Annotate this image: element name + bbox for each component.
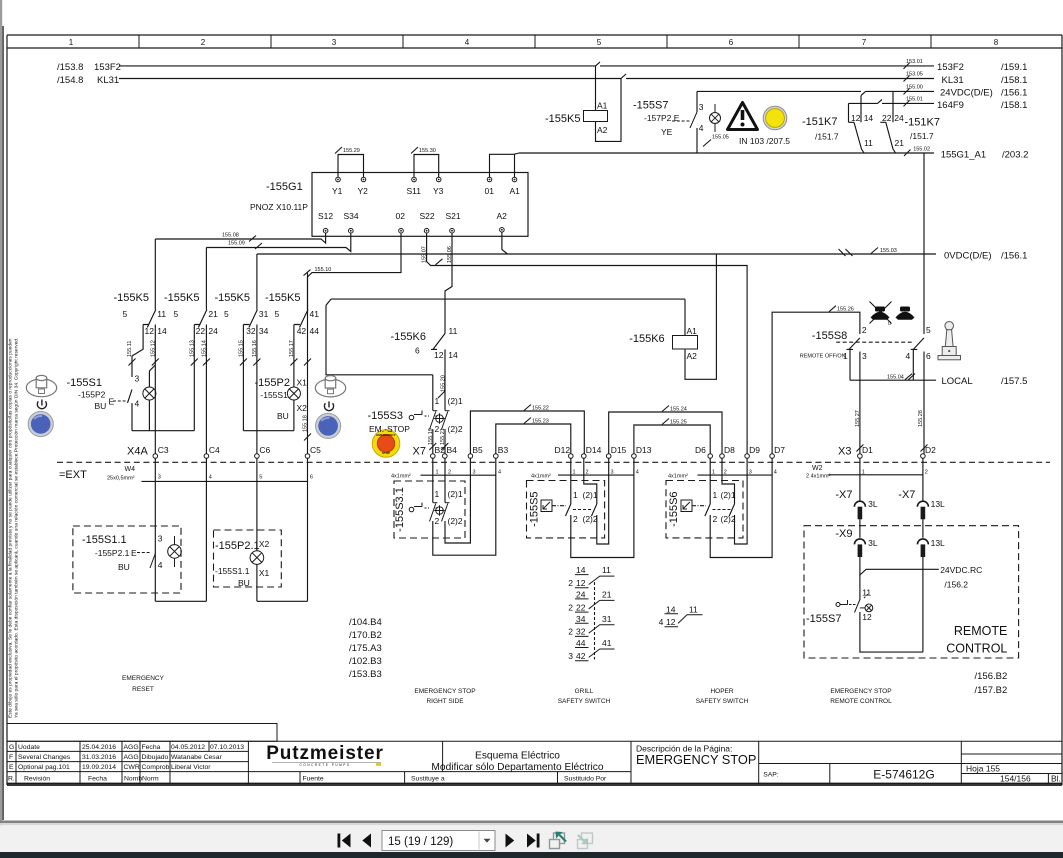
svg-text:-155S1: -155S1 xyxy=(67,377,102,389)
svg-text:D15: D15 xyxy=(611,445,627,455)
svg-text:1: 1 xyxy=(573,470,576,476)
svg-text:14: 14 xyxy=(448,350,458,360)
svg-text:155.19: 155.19 xyxy=(428,428,434,445)
svg-text:1: 1 xyxy=(436,470,439,476)
svg-text:41: 41 xyxy=(310,309,320,319)
svg-text:Liberal Victor: Liberal Victor xyxy=(171,764,211,771)
svg-text:4: 4 xyxy=(465,38,470,47)
svg-text:-151K7: -151K7 xyxy=(802,116,837,128)
svg-text:Sustituido Por: Sustituido Por xyxy=(564,775,607,782)
svg-text:B2: B2 xyxy=(435,445,446,455)
svg-text:S21: S21 xyxy=(446,211,461,221)
svg-text:164F9: 164F9 xyxy=(937,100,964,111)
svg-text:-155P2.1: -155P2.1 xyxy=(95,548,130,558)
svg-text:3: 3 xyxy=(699,102,704,112)
svg-text:153.01: 153.01 xyxy=(906,59,923,65)
svg-text:8: 8 xyxy=(994,38,999,47)
svg-text:155.02: 155.02 xyxy=(913,147,930,153)
svg-text:155.14: 155.14 xyxy=(201,340,207,357)
svg-text:/170.B2: /170.B2 xyxy=(349,630,382,641)
svg-text:-155K5: -155K5 xyxy=(215,292,250,304)
svg-text:155.30: 155.30 xyxy=(419,148,436,154)
svg-text:21: 21 xyxy=(602,590,612,600)
svg-text:-155P2.1: -155P2.1 xyxy=(215,540,260,552)
svg-text:1: 1 xyxy=(862,470,865,476)
svg-text:Nomb: Nomb xyxy=(124,775,142,782)
svg-text:E: E xyxy=(109,397,115,407)
svg-text:Putzmeister: Putzmeister xyxy=(266,743,384,764)
svg-text:155.17: 155.17 xyxy=(289,340,295,357)
svg-text:-155K5: -155K5 xyxy=(164,292,199,304)
svg-text:6: 6 xyxy=(926,351,931,361)
svg-text:Bl.: Bl. xyxy=(1051,774,1061,784)
svg-text:6: 6 xyxy=(310,475,313,481)
svg-text:-155P2: -155P2 xyxy=(255,377,290,389)
svg-text:E: E xyxy=(9,764,14,771)
svg-text:(2)1: (2)1 xyxy=(721,490,736,500)
svg-text:0VDC(D/E): 0VDC(D/E) xyxy=(944,251,992,262)
svg-text:155.15: 155.15 xyxy=(238,340,244,357)
svg-text:Norm: Norm xyxy=(142,775,159,782)
svg-text:3: 3 xyxy=(332,38,337,47)
svg-text:D14: D14 xyxy=(586,445,602,455)
svg-text:155.12: 155.12 xyxy=(150,340,156,357)
svg-text:2: 2 xyxy=(435,516,440,526)
svg-text:44: 44 xyxy=(576,638,586,648)
svg-text:1: 1 xyxy=(69,38,74,47)
svg-text:-X7: -X7 xyxy=(835,489,852,501)
svg-text:EMERGENCY STOP: EMERGENCY STOP xyxy=(414,688,475,695)
svg-text:14: 14 xyxy=(864,113,874,123)
svg-text:2: 2 xyxy=(713,514,718,524)
svg-text:21: 21 xyxy=(895,138,905,148)
svg-text:5: 5 xyxy=(174,309,179,319)
svg-text:Y2: Y2 xyxy=(358,186,369,196)
svg-text:YE: YE xyxy=(661,127,673,137)
svg-text:-155G1: -155G1 xyxy=(266,181,303,193)
svg-text:155.13: 155.13 xyxy=(189,340,195,357)
svg-text:3: 3 xyxy=(473,470,476,476)
svg-text:Several Changes: Several Changes xyxy=(18,754,71,761)
svg-text:(2)1: (2)1 xyxy=(583,490,598,500)
svg-text:A1: A1 xyxy=(687,326,698,336)
svg-text:A2: A2 xyxy=(597,125,608,135)
svg-text:X4A: X4A xyxy=(127,446,148,458)
svg-text:0: 0 xyxy=(888,321,891,327)
svg-text:D12: D12 xyxy=(555,445,571,455)
svg-text:EM.-STOP: EM.-STOP xyxy=(369,424,410,434)
svg-text:155.29: 155.29 xyxy=(343,148,360,154)
svg-text:D6: D6 xyxy=(695,445,706,455)
svg-text:/175.A3: /175.A3 xyxy=(349,643,382,654)
svg-text:=EXT: =EXT xyxy=(59,469,87,481)
svg-text:12: 12 xyxy=(851,113,861,123)
svg-text:/151.7: /151.7 xyxy=(815,132,839,142)
svg-text:24: 24 xyxy=(208,326,218,336)
svg-text:/157.5: /157.5 xyxy=(1001,376,1027,387)
svg-text:(2)1: (2)1 xyxy=(448,489,463,499)
svg-text:07.10.2013: 07.10.2013 xyxy=(210,744,244,751)
svg-text:12: 12 xyxy=(862,612,872,622)
svg-text:EMERGENCY STOP: EMERGENCY STOP xyxy=(636,752,756,767)
svg-text:/158.1: /158.1 xyxy=(1001,75,1027,86)
svg-text:31.03.2016: 31.03.2016 xyxy=(82,754,116,761)
svg-text:-155S7: -155S7 xyxy=(806,613,841,625)
svg-text:CWR: CWR xyxy=(124,764,140,771)
svg-text:3: 3 xyxy=(611,470,614,476)
svg-text:-157P2 E: -157P2 E xyxy=(644,113,680,123)
svg-text:REMOTE OFF/ON: REMOTE OFF/ON xyxy=(800,354,846,360)
svg-text:-155S5: -155S5 xyxy=(529,491,541,526)
svg-text:2: 2 xyxy=(201,38,206,47)
svg-text:/151.7: /151.7 xyxy=(910,131,934,141)
svg-text:KL31: KL31 xyxy=(97,75,119,86)
svg-text:-155K5: -155K5 xyxy=(545,113,580,125)
svg-text:X2: X2 xyxy=(259,539,270,549)
svg-text:-X7: -X7 xyxy=(898,489,915,501)
svg-text:-X9: -X9 xyxy=(835,528,852,540)
svg-text:Ya sea sólo para el propósito: Ya sea sólo para el propósito acordado. … xyxy=(14,339,20,718)
svg-text:1: 1 xyxy=(435,489,440,499)
svg-text:S11: S11 xyxy=(407,186,422,196)
svg-text:22: 22 xyxy=(882,113,892,123)
svg-text:-155K5: -155K5 xyxy=(265,292,300,304)
svg-text:5: 5 xyxy=(224,309,229,319)
svg-text:-155P2: -155P2 xyxy=(78,390,106,400)
svg-text:11: 11 xyxy=(864,138,873,148)
svg-text:12: 12 xyxy=(434,350,444,360)
svg-text:/158.1: /158.1 xyxy=(1001,100,1027,111)
svg-text:Modificar sólo Departamento El: Modificar sólo Departamento Eléctrico xyxy=(431,762,603,773)
svg-text:Fuente: Fuente xyxy=(303,775,324,782)
svg-text:D1: D1 xyxy=(862,445,873,455)
svg-text:Revisión: Revisión xyxy=(24,775,50,782)
svg-text:X1: X1 xyxy=(297,378,308,388)
svg-text:12: 12 xyxy=(145,326,155,336)
svg-text:HOPER: HOPER xyxy=(710,688,733,695)
svg-text:4: 4 xyxy=(659,617,664,627)
svg-text:12: 12 xyxy=(576,578,586,588)
svg-text:11: 11 xyxy=(689,604,698,614)
svg-text:153F2: 153F2 xyxy=(94,62,121,73)
svg-text:14: 14 xyxy=(157,326,167,336)
svg-text:/203.2: /203.2 xyxy=(1002,150,1028,161)
svg-text:32: 32 xyxy=(576,627,586,637)
svg-text:31: 31 xyxy=(259,309,269,319)
svg-text:155.27: 155.27 xyxy=(855,410,861,427)
svg-text:SAFETY SWITCH: SAFETY SWITCH xyxy=(558,698,611,705)
svg-text:155.04: 155.04 xyxy=(887,375,904,381)
svg-text:(2)2: (2)2 xyxy=(448,424,463,434)
svg-text:24: 24 xyxy=(576,590,586,600)
svg-text:6: 6 xyxy=(729,38,734,47)
svg-text:5: 5 xyxy=(926,325,931,335)
svg-text:01: 01 xyxy=(485,186,495,196)
svg-text:4: 4 xyxy=(209,475,212,481)
svg-text:4: 4 xyxy=(774,470,777,476)
svg-text:02: 02 xyxy=(396,211,406,221)
svg-text:1: 1 xyxy=(573,490,578,500)
svg-text:D8: D8 xyxy=(724,445,735,455)
svg-text:/153.8: /153.8 xyxy=(57,62,83,73)
svg-text:D9: D9 xyxy=(749,445,760,455)
svg-text:155.10: 155.10 xyxy=(315,267,332,273)
svg-text:(2)2: (2)2 xyxy=(583,514,598,524)
svg-text:155.08: 155.08 xyxy=(222,233,239,239)
svg-text:155.24: 155.24 xyxy=(670,407,687,413)
svg-text:E: E xyxy=(131,548,137,558)
svg-text:BU: BU xyxy=(95,401,107,411)
svg-text:-155S8: -155S8 xyxy=(812,330,847,342)
svg-text:2: 2 xyxy=(568,578,573,588)
svg-text:44: 44 xyxy=(310,326,320,336)
svg-text:4: 4 xyxy=(498,470,501,476)
svg-text:Y1: Y1 xyxy=(332,186,343,196)
svg-text:11: 11 xyxy=(157,309,166,319)
svg-text:B3: B3 xyxy=(498,445,509,455)
svg-text:REMOTE: REMOTE xyxy=(954,624,1007,638)
svg-text:2: 2 xyxy=(862,325,867,335)
svg-text:Hoja 155: Hoja 155 xyxy=(966,764,1000,774)
svg-text:4x1mm²: 4x1mm² xyxy=(531,474,551,480)
svg-text:155.07: 155.07 xyxy=(422,246,428,263)
svg-text:155.03: 155.03 xyxy=(880,248,897,254)
svg-text:-155S1.1: -155S1.1 xyxy=(215,566,250,576)
svg-text:S12: S12 xyxy=(318,211,333,221)
svg-text:155.11: 155.11 xyxy=(127,341,133,357)
svg-text:BU: BU xyxy=(118,562,130,572)
svg-text:C4: C4 xyxy=(209,445,220,455)
svg-text:-155S1.1: -155S1.1 xyxy=(82,534,127,546)
svg-text:155.05: 155.05 xyxy=(712,135,729,141)
svg-text:3: 3 xyxy=(158,475,161,481)
svg-text:3: 3 xyxy=(568,651,573,661)
svg-text:X3: X3 xyxy=(838,446,851,458)
svg-text:Sustituye a: Sustituye a xyxy=(411,775,445,782)
svg-text:13L: 13L xyxy=(931,538,945,548)
svg-text:S34: S34 xyxy=(344,211,359,221)
svg-text:-155S3: -155S3 xyxy=(368,410,403,422)
svg-text:24: 24 xyxy=(894,113,904,123)
svg-text:2: 2 xyxy=(448,470,451,476)
svg-text:RESET: RESET xyxy=(132,686,154,693)
svg-text:-155K6: -155K6 xyxy=(391,331,426,343)
svg-text:B5: B5 xyxy=(472,445,483,455)
svg-text:154/156: 154/156 xyxy=(1000,774,1031,784)
svg-text:34: 34 xyxy=(576,614,586,624)
svg-text:(2)2: (2)2 xyxy=(721,514,736,524)
svg-text:4: 4 xyxy=(636,470,639,476)
svg-text:155.23: 155.23 xyxy=(532,419,549,425)
svg-text:SAP:: SAP: xyxy=(763,772,779,779)
svg-text:E-574612G: E-574612G xyxy=(873,768,934,782)
svg-text:5: 5 xyxy=(123,309,128,319)
svg-text:A2: A2 xyxy=(687,351,698,361)
svg-text:3: 3 xyxy=(749,470,752,476)
svg-text:A1: A1 xyxy=(597,101,608,111)
svg-text:D13: D13 xyxy=(636,445,652,455)
svg-text:25.04.2016: 25.04.2016 xyxy=(82,744,116,751)
svg-text:42: 42 xyxy=(576,651,586,661)
svg-text:/157.B2: /157.B2 xyxy=(975,685,1008,696)
svg-text:34: 34 xyxy=(259,326,269,336)
svg-text:-155S3.1: -155S3.1 xyxy=(394,487,406,532)
svg-text:/104.B4: /104.B4 xyxy=(349,617,382,628)
svg-text:155.21: 155.21 xyxy=(440,428,446,445)
svg-text:4x1mm²: 4x1mm² xyxy=(391,474,411,480)
svg-text:Watanabe Cesar: Watanabe Cesar xyxy=(171,754,222,761)
svg-text:Dibujado: Dibujado xyxy=(142,754,169,761)
svg-text:153F2: 153F2 xyxy=(937,62,964,73)
svg-text:3L: 3L xyxy=(868,538,878,548)
svg-text:15 (19 / 129): 15 (19 / 129) xyxy=(388,836,453,848)
svg-text:/156.1: /156.1 xyxy=(1001,251,1027,262)
svg-text:155.06: 155.06 xyxy=(447,246,453,263)
svg-text:W4: W4 xyxy=(125,466,136,473)
svg-text:Optional pag.101: Optional pag.101 xyxy=(18,764,70,771)
svg-text:AGG: AGG xyxy=(124,744,139,751)
svg-text:21: 21 xyxy=(208,309,218,319)
svg-text:A2: A2 xyxy=(497,211,508,221)
svg-text:GRILL: GRILL xyxy=(575,688,594,695)
svg-text:12: 12 xyxy=(666,617,676,627)
svg-text:4x1mm²: 4x1mm² xyxy=(668,474,688,480)
svg-text:KL31: KL31 xyxy=(942,75,964,86)
svg-text:IN 103 /207.5: IN 103 /207.5 xyxy=(739,136,790,146)
svg-text:155G1_A1: 155G1_A1 xyxy=(941,150,986,161)
svg-text:BU: BU xyxy=(238,578,250,588)
svg-text:25x0,5mm²: 25x0,5mm² xyxy=(107,476,135,482)
svg-text:-151K7: -151K7 xyxy=(905,117,940,129)
svg-text:X7: X7 xyxy=(413,446,426,458)
svg-text:Comprob: Comprob xyxy=(142,764,170,771)
svg-text:(2)1: (2)1 xyxy=(448,396,463,406)
svg-text:22: 22 xyxy=(576,602,586,612)
svg-text:14: 14 xyxy=(576,565,586,575)
svg-text:Fecha: Fecha xyxy=(88,775,107,782)
svg-text:/156.2: /156.2 xyxy=(944,580,968,590)
svg-text:C6: C6 xyxy=(259,445,270,455)
svg-text:CONCRETE PUMPS: CONCRETE PUMPS xyxy=(299,763,350,767)
svg-text:Uodate: Uodate xyxy=(18,744,40,751)
svg-text:2 4x1mm²: 2 4x1mm² xyxy=(806,474,831,480)
svg-text:-155K6: -155K6 xyxy=(629,333,664,345)
svg-text:42: 42 xyxy=(297,326,307,336)
svg-text:24VDC(D/E): 24VDC(D/E) xyxy=(940,88,993,99)
svg-text:2: 2 xyxy=(568,627,573,637)
svg-text:3L: 3L xyxy=(868,499,878,509)
svg-text:4: 4 xyxy=(135,399,140,409)
svg-text:1: 1 xyxy=(713,490,718,500)
svg-text:RIGHT SIDE: RIGHT SIDE xyxy=(426,698,464,705)
svg-text:6: 6 xyxy=(415,346,420,356)
svg-text:-155S1: -155S1 xyxy=(260,390,288,400)
svg-text:2: 2 xyxy=(925,470,928,476)
svg-text:S22: S22 xyxy=(420,211,435,221)
svg-text:155.09: 155.09 xyxy=(228,241,245,247)
svg-text:CONTROL: CONTROL xyxy=(946,642,1007,656)
svg-text:X2: X2 xyxy=(297,403,308,413)
svg-text:11: 11 xyxy=(862,588,871,598)
svg-text:-155S6: -155S6 xyxy=(668,491,680,526)
svg-text:AGG: AGG xyxy=(124,754,139,761)
svg-text:REMOTE CONTROL: REMOTE CONTROL xyxy=(830,698,892,705)
svg-text:5: 5 xyxy=(597,38,602,47)
svg-text:Esquema Eléctrico: Esquema Eléctrico xyxy=(475,751,560,762)
svg-text:32: 32 xyxy=(246,326,256,336)
svg-text:3: 3 xyxy=(862,351,867,361)
svg-text:13L: 13L xyxy=(931,499,945,509)
svg-text:/159.1: /159.1 xyxy=(1001,62,1027,73)
svg-text:D2: D2 xyxy=(925,445,936,455)
svg-text:11: 11 xyxy=(602,565,611,575)
svg-text:4: 4 xyxy=(906,351,911,361)
svg-text:155.22: 155.22 xyxy=(532,406,549,412)
svg-text:2: 2 xyxy=(435,424,440,434)
svg-text:4: 4 xyxy=(699,123,704,133)
svg-text:STOP: STOP xyxy=(382,451,390,455)
svg-text:X1: X1 xyxy=(259,568,270,578)
svg-text:B4: B4 xyxy=(447,445,458,455)
svg-text:5: 5 xyxy=(259,475,262,481)
svg-text:D7: D7 xyxy=(774,445,785,455)
svg-text:BU: BU xyxy=(277,411,289,421)
svg-text:F: F xyxy=(9,754,13,761)
svg-text:Fecha: Fecha xyxy=(142,744,161,751)
svg-text:155.25: 155.25 xyxy=(670,420,687,426)
svg-text:04.05.2012: 04.05.2012 xyxy=(171,744,205,751)
svg-text:41: 41 xyxy=(602,638,612,648)
svg-text:155.26: 155.26 xyxy=(837,307,854,313)
svg-text:1: 1 xyxy=(712,470,715,476)
svg-text:G: G xyxy=(9,744,14,751)
svg-text:Este dibujo es propiedad exclu: Este dibujo es propiedad exclusiva. Se l… xyxy=(8,338,14,718)
svg-text:2: 2 xyxy=(586,470,589,476)
svg-text:EMERGENCY STOP: EMERGENCY STOP xyxy=(830,688,891,695)
svg-text:C5: C5 xyxy=(310,445,321,455)
svg-text:/156.B2: /156.B2 xyxy=(975,671,1008,682)
svg-text:Y3: Y3 xyxy=(433,186,444,196)
svg-text:1: 1 xyxy=(435,396,440,406)
svg-text:155.18: 155.18 xyxy=(303,415,309,432)
svg-text:155.01: 155.01 xyxy=(906,97,923,103)
svg-text:EMERGENCY: EMERGENCY xyxy=(122,675,165,682)
svg-text:2: 2 xyxy=(573,514,578,524)
svg-text:14: 14 xyxy=(666,604,676,614)
svg-text:A1: A1 xyxy=(510,186,521,196)
svg-text:3: 3 xyxy=(135,374,140,384)
svg-text:/154.8: /154.8 xyxy=(57,75,83,86)
svg-text:11: 11 xyxy=(449,326,458,336)
svg-text:19.09.2014: 19.09.2014 xyxy=(82,764,116,771)
svg-text:5: 5 xyxy=(275,309,280,319)
svg-text:/156.1: /156.1 xyxy=(1001,88,1027,99)
svg-text:4: 4 xyxy=(158,560,163,570)
svg-text:155.28: 155.28 xyxy=(918,410,924,427)
svg-text:2: 2 xyxy=(568,602,573,612)
svg-text:31: 31 xyxy=(602,614,612,624)
svg-text:-155K5: -155K5 xyxy=(114,292,149,304)
svg-text:24VDC.RC: 24VDC.RC xyxy=(940,565,982,575)
svg-text:155.20: 155.20 xyxy=(440,375,446,392)
svg-text:155.00: 155.00 xyxy=(906,85,923,91)
svg-text:-155S7: -155S7 xyxy=(633,100,668,112)
svg-text:C3: C3 xyxy=(158,445,169,455)
svg-text:155.16: 155.16 xyxy=(252,340,258,357)
svg-text:3: 3 xyxy=(158,534,163,544)
svg-text:153.05: 153.05 xyxy=(906,72,923,78)
svg-text:LOCAL: LOCAL xyxy=(942,376,973,387)
